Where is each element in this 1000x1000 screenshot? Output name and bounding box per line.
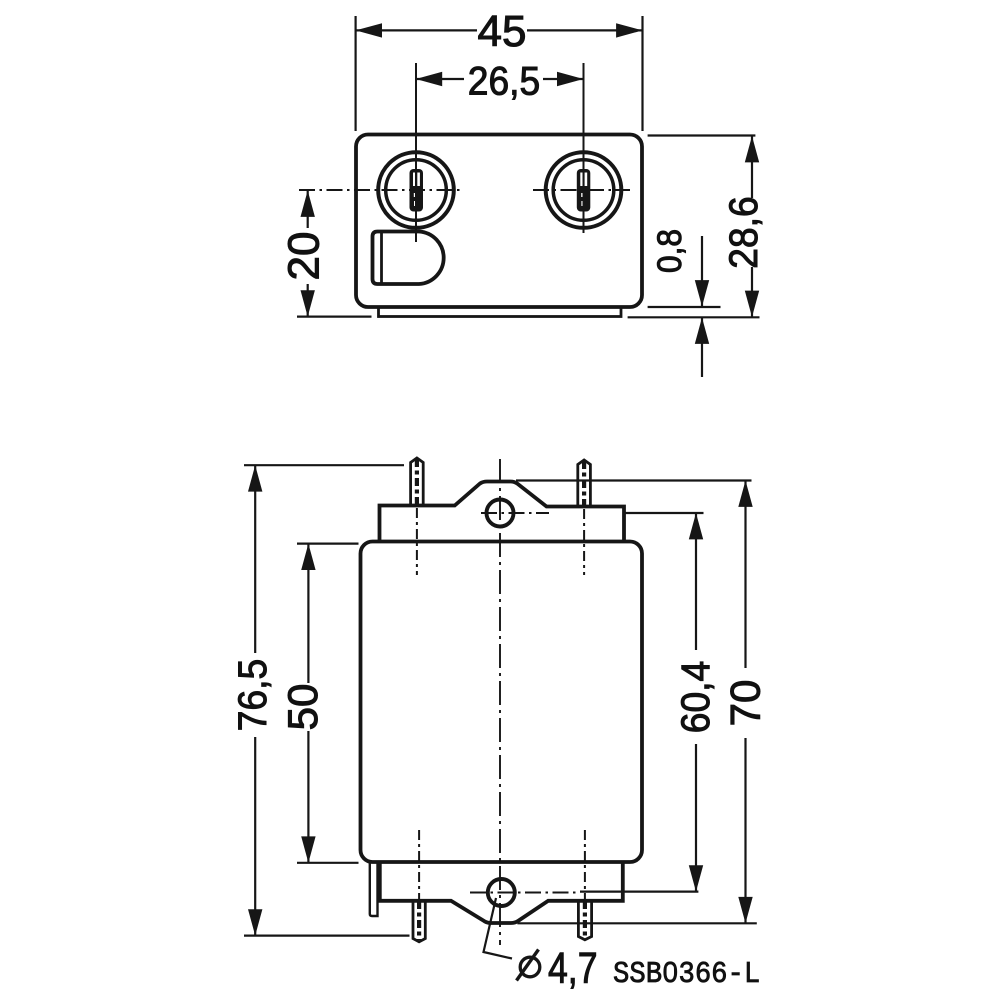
dimension 50 line bbox=[307, 544, 309, 683]
front top bracket and flanges bbox=[380, 482, 625, 542]
dimension 76,5 extension bottom bbox=[244, 934, 410, 936]
dimension 0,8 line upper bbox=[701, 236, 703, 307]
dimension 70 arrow top bbox=[738, 481, 752, 507]
dimension 20 extension bottom bbox=[297, 316, 372, 318]
dimension 0,8 extension top bbox=[648, 306, 721, 308]
svg-text:20: 20 bbox=[280, 232, 329, 281]
terminal T1 screw slot bbox=[410, 169, 424, 212]
central vertical center line bbox=[499, 459, 501, 945]
dimension 28,6 arrow top bbox=[745, 136, 759, 162]
top view baseplate edge bbox=[379, 307, 622, 317]
dimension 76,5 extension top bbox=[244, 464, 404, 466]
top pin P1 center line bbox=[415, 459, 419, 506]
terminal T1 inner circle bbox=[386, 160, 447, 221]
center line T1 horizontal bbox=[299, 189, 463, 191]
dimension 60,4 extension top bbox=[624, 512, 704, 514]
leader line for hole diameter bbox=[484, 898, 513, 959]
dimension 45 arrow left bbox=[356, 23, 382, 37]
front bottom mounting hole bbox=[488, 879, 515, 906]
faston tab inner line bbox=[380, 232, 383, 284]
dimension 45 arrow right bbox=[616, 23, 642, 37]
dimension 70 arrow bottom bbox=[738, 897, 752, 923]
dimension 76,5 arrow top bbox=[248, 465, 262, 491]
dimension 50 arrow top bbox=[301, 544, 315, 570]
bottom left solder tab bbox=[370, 862, 378, 916]
patch over mono zero dot bbox=[667, 967, 674, 976]
bottom hole center line horizontal bbox=[470, 892, 580, 894]
svg-text:70: 70 bbox=[722, 680, 769, 727]
dimension 0,8 arrow lower bbox=[695, 318, 709, 344]
dimension 20 line bbox=[307, 191, 309, 229]
dimension 0,8 arrow upper bbox=[695, 280, 709, 306]
front top mounting hole bbox=[487, 500, 514, 527]
dimension 45 line bbox=[356, 29, 477, 31]
svg-text:45: 45 bbox=[478, 7, 527, 56]
top view body outline bbox=[356, 135, 642, 308]
bottom pin P4 outline bbox=[578, 901, 591, 940]
top pin P2 center line bbox=[582, 461, 586, 507]
terminal T2 inner circle bbox=[553, 160, 614, 221]
dimension 76,5 line bbox=[254, 465, 256, 653]
dimension 26,5 arrow left bbox=[416, 72, 442, 86]
svg-text:0,8: 0,8 bbox=[650, 229, 688, 273]
top pin P1 outline bbox=[411, 458, 424, 505]
terminal T2 outer circle bbox=[546, 152, 622, 228]
bottom pin P3 center line bbox=[417, 901, 421, 940]
center line T2 horizontal bbox=[533, 189, 630, 191]
terminal T2 screw slot bbox=[577, 169, 591, 212]
dimension 50 extension bottom bbox=[297, 862, 359, 864]
svg-text:26,5: 26,5 bbox=[468, 59, 540, 104]
dimension 20 arrow bottom bbox=[301, 290, 315, 316]
svg-text:28,6: 28,6 bbox=[722, 196, 767, 268]
dimension 60,4 arrow top bbox=[689, 513, 703, 539]
dimension 50 extension top bbox=[297, 542, 359, 544]
front body outline bbox=[361, 542, 643, 863]
svg-text:4,7: 4,7 bbox=[548, 945, 598, 993]
dimension 20 arrow top bbox=[301, 191, 315, 217]
bottom pin P4 center line bbox=[583, 901, 587, 938]
dimension 45 extension right bbox=[641, 16, 643, 131]
dimension 60,4 extension bottom bbox=[580, 890, 698, 892]
dimension 28,6 extension top bbox=[648, 134, 756, 136]
dimension 60,4 arrow bottom bbox=[689, 865, 703, 891]
dimension 70 extension top bbox=[516, 479, 752, 481]
svg-text:76,5: 76,5 bbox=[231, 659, 276, 731]
dimension 28,6 line bbox=[751, 136, 753, 198]
dimension 0,8 line lower bbox=[701, 318, 703, 378]
top hole center line horizontal bbox=[481, 512, 549, 514]
faston tab D-shape bbox=[373, 232, 444, 285]
front bottom bracket and flanges bbox=[380, 862, 623, 923]
center line T1 vertical bbox=[415, 63, 417, 242]
terminal T1 outer circle bbox=[378, 152, 454, 228]
dimension 26,5 arrow right bbox=[557, 72, 583, 86]
svg-text:60,4: 60,4 bbox=[674, 661, 719, 733]
dimension 70 extension bottom bbox=[517, 922, 756, 924]
center line T2 vertical bbox=[583, 63, 585, 233]
dimension 76,5 arrow bottom bbox=[248, 909, 262, 935]
dimension 50 arrow bottom bbox=[301, 836, 315, 862]
svg-text:SSB0366-L: SSB0366-L bbox=[613, 957, 760, 992]
bottom pin P3 outline bbox=[413, 901, 425, 942]
dimension 70 line bbox=[744, 481, 746, 669]
dimension 28,6 extension bottom bbox=[628, 316, 760, 318]
top pin P2 outline bbox=[578, 460, 591, 506]
dimension 60,4 line bbox=[695, 513, 697, 650]
diameter symbol bbox=[517, 950, 540, 981]
dimension 26,5 line bbox=[416, 78, 464, 80]
svg-text:50: 50 bbox=[279, 684, 326, 731]
dimension 28,6 arrow bottom bbox=[745, 291, 759, 317]
dimension 45 extension left bbox=[355, 16, 357, 131]
